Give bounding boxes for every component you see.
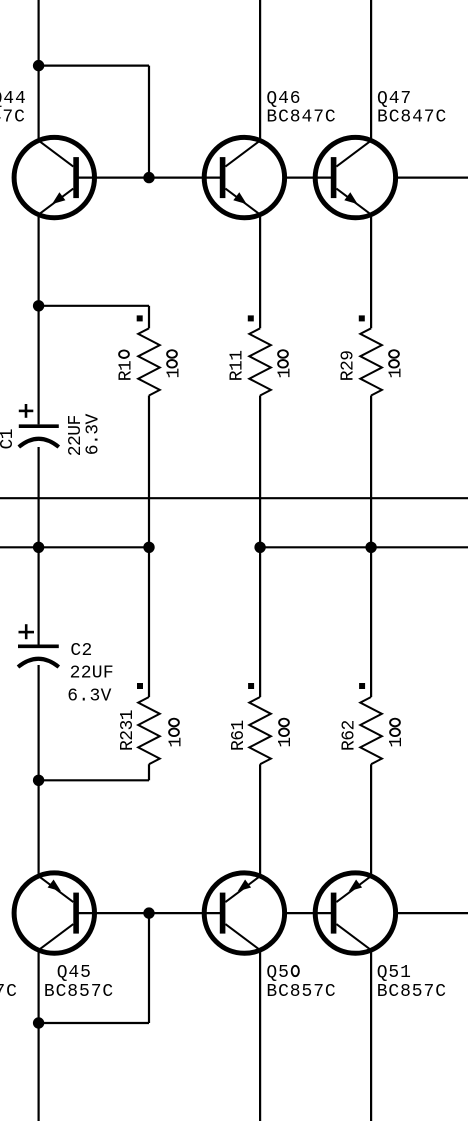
svg-text:BC847C: BC847C (0, 108, 26, 128)
wire R62 bottom to Q51 (370, 764, 372, 876)
junction dot R231 left rail (33, 775, 44, 786)
resistor R29 (360, 328, 382, 395)
svg-text:C2: C2 (70, 641, 92, 661)
svg-text:BC857C: BC857C (44, 982, 114, 1002)
svg-text:R11: R11 (228, 350, 248, 381)
resistor R61 (249, 697, 271, 764)
wire top feedback vertical (148, 66, 150, 178)
svg-text:R1: R1 (117, 361, 137, 382)
svg-text:Q44: Q44 (0, 89, 27, 109)
junction dot base bus bottom (143, 907, 154, 918)
svg-text:22UF: 22UF (70, 663, 114, 683)
svg-text:R231: R231 (118, 710, 138, 751)
wire Q50 collector bottom rail (259, 950, 261, 1121)
resistor R10 (138, 328, 160, 395)
junction dot bus B R62 (365, 542, 376, 553)
wire base bus Q44 to Q46 (75, 177, 223, 179)
wire base bus Q50 to Q51 (285, 912, 334, 914)
wire bus A full width (0, 497, 468, 499)
svg-text:BC857C: BC857C (0, 982, 18, 1002)
wire bottom feedback horizontal (39, 1022, 149, 1024)
resistor R11 (249, 328, 271, 395)
transistor Q45 (14, 873, 94, 953)
pin marker R29 (359, 315, 365, 321)
svg-text:C1: C1 (0, 429, 18, 450)
svg-text:R29: R29 (339, 350, 359, 381)
wire bus B left segment (0, 546, 149, 548)
svg-text:R62: R62 (339, 720, 359, 751)
svg-text:1: 1 (167, 737, 187, 747)
capacitor C2 (18, 624, 59, 667)
junction dot top left (33, 60, 44, 71)
svg-text:6.3V: 6.3V (67, 686, 111, 706)
svg-text:Q5: Q5 (266, 963, 289, 983)
svg-text:1: 1 (387, 737, 407, 747)
svg-text:BC857C: BC857C (266, 982, 336, 1002)
wire left rail C1 to C2 (37, 447, 39, 645)
svg-text:Q45: Q45 (57, 963, 92, 983)
svg-text:1: 1 (164, 368, 184, 378)
wire base bus Q46 to Q47 (285, 177, 334, 179)
capacitor C1 (19, 404, 59, 447)
wire left rail bottom segment (37, 950, 39, 1121)
wire bus B right segment (260, 546, 468, 548)
svg-text:BC857C: BC857C (377, 982, 447, 1002)
transistor Q46 (204, 137, 284, 217)
wire left rail top segment (37, 0, 39, 141)
wire left rail C2 to Q45 (37, 665, 39, 876)
transistor Q51 (315, 873, 395, 953)
transistor Q47 (315, 137, 395, 217)
wire R11 bottom to bus B (259, 396, 261, 548)
pin marker R11 (248, 315, 254, 321)
svg-text:1: 1 (276, 737, 296, 747)
junction dot bus B R231 (143, 542, 154, 553)
junction dot base bus top (143, 172, 154, 183)
wire R10 bottom to bus B (148, 396, 150, 548)
svg-text:Q51: Q51 (377, 963, 412, 983)
wire bus B to R61 (259, 547, 261, 697)
pin marker R10 (137, 315, 143, 321)
wire bus B to R231 (148, 547, 150, 697)
wire R231 to left rail horizontal (39, 779, 149, 781)
svg-text:6.3V: 6.3V (84, 413, 104, 455)
resistor R231 (138, 697, 160, 764)
svg-text:BC847C: BC847C (266, 108, 336, 128)
resistor R62 (360, 697, 382, 764)
transistor Q44 (14, 137, 94, 217)
wire base bus Q51 to right edge (396, 912, 468, 914)
wire Q51 collector bottom rail (370, 950, 372, 1121)
wire Q47 emitter to R29 (370, 215, 372, 329)
wire R29 bottom to bus B (370, 396, 372, 548)
svg-text:1: 1 (276, 368, 296, 378)
svg-text:Q46: Q46 (266, 89, 301, 109)
pin marker R231 (137, 683, 143, 689)
wire Q46 emitter to R11 (259, 215, 261, 329)
wire base bus Q47 to right edge (396, 177, 468, 179)
wire left rail Q44 emitter to C1 (37, 215, 39, 425)
wire R231 bottom lead (148, 764, 150, 780)
pin marker R62 (359, 683, 365, 689)
wire node to R10 horizontal (39, 305, 149, 307)
transistor Q50 (204, 873, 284, 953)
junction dot bus B R61 (254, 542, 265, 553)
wire R61 bottom to Q50 (259, 764, 261, 876)
svg-text:1: 1 (387, 368, 407, 378)
wire top feedback horizontal (39, 64, 149, 66)
wire bus B to R62 (370, 547, 372, 697)
wire bottom feedback vertical (148, 913, 150, 1023)
junction dot bottom left (33, 1017, 44, 1028)
svg-text:BC847C: BC847C (377, 108, 447, 128)
wire R10 top lead (148, 306, 150, 329)
wire base bus Q45 to Q50 (75, 912, 223, 914)
pin marker R61 (248, 683, 254, 689)
wire Q46 collector rail (259, 0, 261, 141)
svg-text:Q47: Q47 (377, 89, 412, 109)
junction dot R10 branch (33, 300, 44, 311)
svg-text:R61: R61 (229, 720, 249, 751)
junction dot bus B left rail (33, 542, 44, 553)
wire Q47 collector rail (370, 0, 372, 141)
